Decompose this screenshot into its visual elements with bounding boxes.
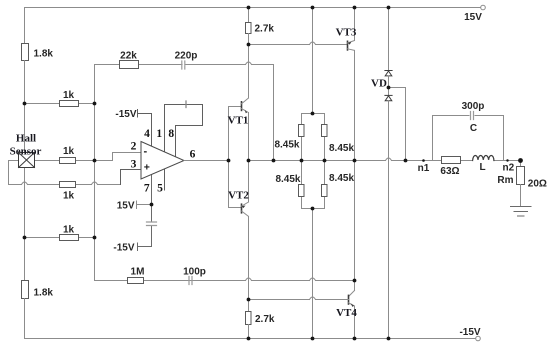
capacitor C 300p plates — [471, 112, 474, 120]
300p loop left vertical — [432, 116, 434, 161]
wire VT1/VT2 base column — [229, 107, 242, 208]
svg-text:8.45k: 8.45k — [274, 140, 299, 151]
hop of VT3 base row over bridge column — [310, 42, 316, 45]
bridge left branch — [301, 114, 303, 209]
resistor R 1k (row A) body — [60, 158, 76, 164]
node dot rail/VT4 — [353, 337, 357, 341]
transistor Q VT4 collector diag — [349, 291, 355, 297]
wire VD column from rail — [388, 8, 390, 71]
Rm lead down — [520, 161, 522, 167]
node dot left col row1 — [23, 102, 27, 106]
-15V terminal circle — [476, 336, 481, 341]
svg-text:300p: 300p — [462, 101, 485, 112]
300p loop right vertical — [503, 116, 505, 161]
Rm to ground — [520, 185, 522, 207]
hop of VT4 base row over bridge column — [310, 297, 316, 300]
wire left column hall to row4 — [24, 168, 26, 238]
op-amp U1 pin4 supply wire — [138, 114, 152, 147]
diode VD2 bar — [385, 94, 392, 96]
diode VD2 triangle — [385, 96, 392, 101]
bridge top horizontal — [302, 113, 325, 115]
svg-text:7: 7 — [144, 183, 150, 195]
svg-text:+: + — [144, 162, 150, 174]
hop of 1M row over bridge column — [310, 278, 316, 281]
resistor R 8.45k UR body — [322, 125, 328, 137]
wire 22k/220p feedback row — [95, 65, 274, 161]
svg-text:L: L — [479, 162, 485, 173]
2.7k to VT3-base node — [248, 34, 250, 45]
svg-text:n2: n2 — [503, 163, 515, 174]
wire 1M/100p feedback row — [95, 280, 355, 282]
wire summing vertical column — [94, 65, 96, 281]
svg-text:4: 4 — [144, 128, 150, 140]
svg-text:1k: 1k — [63, 191, 75, 202]
svg-text:2.7k: 2.7k — [255, 314, 275, 325]
svg-text:1M: 1M — [131, 267, 145, 278]
VT3 collector (down) — [348, 49, 355, 161]
hall sensor box — [19, 153, 35, 168]
decoupling capacitor plates — [147, 222, 157, 226]
node dot rail/bridge bottom — [311, 337, 315, 341]
hall loop hop over summing column — [92, 182, 98, 185]
wire VT3 base row — [249, 44, 348, 46]
svg-text:8: 8 — [168, 128, 174, 140]
VT2 emitter arrow (into bar) — [242, 206, 246, 209]
resistor R 8.45k UL body — [299, 125, 305, 137]
hop of 1M row over VT2 column — [246, 278, 252, 281]
svg-text:1: 1 — [156, 128, 162, 140]
VT2 collector (down) — [242, 211, 249, 300]
svg-text:VT1: VT1 — [228, 115, 249, 127]
node dot bridge right/output — [323, 159, 327, 163]
VD column to bottom rail — [388, 101, 390, 339]
svg-text:VD: VD — [371, 78, 387, 90]
VD mid to VD2 — [388, 88, 390, 96]
svg-text:1.8k: 1.8k — [34, 288, 54, 299]
svg-text:1.8k: 1.8k — [34, 49, 54, 60]
node dot emitters/output — [247, 159, 251, 163]
transistor Q VT3 base bar — [347, 41, 349, 50]
resistor R 2.7k (top) lead from rail — [248, 8, 250, 23]
node dot left col row4 — [23, 236, 27, 240]
resistor R 1.8k (top-left) body — [22, 44, 29, 61]
node dot rail/VT3 — [353, 6, 357, 10]
VD1 to mid node — [388, 76, 390, 88]
hall sensor X diagonals — [19, 153, 35, 168]
hall loop hop over left column — [22, 182, 28, 185]
compensation capacitor tick — [185, 101, 187, 108]
hall sensor left loop wire — [9, 161, 121, 185]
wire row4 (node to summing column) — [25, 237, 95, 239]
svg-text:C: C — [470, 123, 477, 134]
resistor R 63ohm body — [442, 157, 461, 164]
VT4 emitter — [349, 303, 355, 339]
resistor R 1.8k (bottom-left) body — [22, 281, 29, 299]
svg-text:1k: 1k — [63, 146, 75, 157]
svg-text:100p: 100p — [183, 267, 206, 278]
svg-text:8.45k: 8.45k — [275, 174, 300, 185]
ground symbol — [511, 207, 532, 217]
-15V tick (bottom) — [137, 243, 139, 251]
resistor R 8.45k LR body — [322, 185, 328, 197]
2.7k bottom to rail — [248, 325, 250, 339]
transistor Q VT1 base bar — [241, 102, 243, 111]
VT1 emitter — [242, 109, 249, 161]
svg-text:2: 2 — [131, 141, 137, 153]
wire top +15V rail — [25, 7, 484, 9]
op-amp pin5 stub — [164, 170, 166, 191]
wire left column row1 to hall sensor — [24, 104, 26, 153]
svg-text:Rm: Rm — [497, 175, 513, 186]
node dot rail/VT2 2.7k — [247, 337, 251, 341]
svg-text:Sensor: Sensor — [10, 146, 42, 158]
node dot rail/VD — [387, 6, 391, 10]
node dot VD mid — [387, 86, 391, 90]
op-amp pin7 vertical + decoupling path — [138, 174, 152, 247]
svg-text:1k: 1k — [63, 90, 75, 101]
svg-text:VT4: VT4 — [336, 307, 357, 319]
node dot feedback row end / VT column — [353, 279, 357, 283]
wire VT column output to VT4 — [354, 161, 356, 291]
svg-text:63Ω: 63Ω — [440, 166, 459, 177]
15V tick — [136, 201, 138, 209]
svg-text:6: 6 — [190, 149, 196, 161]
node n1 small dot — [422, 159, 425, 162]
wire pin3 corner to op-amp — [121, 170, 142, 185]
wire left column 1.8k to row1 — [24, 61, 26, 104]
node dot 2.7k/VT3 base — [247, 43, 251, 47]
node dot 220p column/output — [272, 159, 276, 163]
node dot summing rowA — [93, 159, 97, 163]
diode VD1 bar — [385, 70, 392, 72]
svg-text:20Ω: 20Ω — [528, 179, 547, 190]
svg-text:1k: 1k — [63, 225, 75, 236]
hop of 220p row over VT1 collector — [246, 62, 252, 65]
svg-text:VT3: VT3 — [336, 27, 357, 39]
capacitor C 100p plates — [189, 277, 192, 285]
gap cover for 220p — [183, 63, 185, 65]
resistor R 1k (row1) body — [60, 101, 79, 107]
transistor Q VT2 base bar — [241, 204, 243, 213]
15V wire to pin7 — [137, 204, 152, 206]
wire row1 (node to summing column) — [25, 103, 95, 105]
node dot VT column/output — [353, 159, 357, 163]
node dot rail/2.7k — [247, 6, 251, 10]
resistor R 2.7k (bottom) lead — [248, 300, 250, 312]
svg-text:VT2: VT2 — [228, 190, 249, 202]
VT3 emitter (up) — [348, 8, 355, 44]
svg-text:-15V: -15V — [459, 327, 480, 338]
svg-text:5: 5 — [157, 183, 163, 195]
svg-text:3: 3 — [131, 159, 137, 171]
node dot bridge left/output — [300, 159, 304, 163]
capacitor C 220p plates — [182, 61, 185, 69]
resistor R 2.7k (bottom) body — [246, 312, 252, 325]
node dot VT2 collector/VT4 base — [247, 298, 251, 302]
wire hall right pin row A to op-amp pin2 — [35, 153, 142, 161]
resistor Rm body — [517, 167, 525, 185]
resistor R 8.45k LL body — [299, 185, 305, 197]
svg-text:2.7k: 2.7k — [255, 24, 275, 35]
svg-text:220p: 220p — [175, 51, 198, 62]
node dot bridge bottom — [311, 207, 315, 211]
node dot base column/output — [227, 159, 231, 163]
inductor L humps — [473, 156, 494, 161]
VT2 emitter (up) — [242, 161, 249, 207]
15V terminal circle — [481, 5, 486, 10]
VT4 base bar — [348, 295, 350, 304]
node dot rail/VD bottom — [387, 337, 391, 341]
wire bottom -15V rail — [25, 338, 479, 340]
VT4 emitter arrow — [351, 303, 354, 307]
resistor R 1k (row4) body — [60, 235, 79, 241]
node dot output end (Rm tap) — [518, 158, 523, 163]
node dot VD tap/output — [404, 159, 408, 163]
bridge bottom horizontal — [302, 208, 325, 210]
output line hop over VD column — [386, 158, 392, 161]
svg-text:22k: 22k — [120, 51, 137, 62]
wire VD mid tap — [389, 88, 406, 161]
svg-text:n1: n1 — [418, 163, 430, 174]
resistor R 2.7k (top) body — [246, 23, 252, 34]
resistor R 22k body — [120, 61, 139, 69]
wire VT4 base row from VT2 collector node — [249, 299, 349, 301]
wire bridge top column — [312, 8, 314, 114]
node dot bridge top — [311, 112, 315, 116]
node dot rail/bridge — [311, 6, 315, 10]
svg-text:15V: 15V — [464, 12, 482, 23]
300p loop top with cap gap — [433, 115, 504, 117]
svg-text:Hall: Hall — [16, 133, 36, 145]
resistor R 1k (row B) body — [60, 182, 76, 188]
resistor R 1M body — [128, 278, 144, 284]
diode VD1 triangle — [385, 71, 392, 76]
svg-text:8.45k: 8.45k — [329, 143, 354, 154]
VT3 emitter arrow (into bar) — [348, 42, 352, 45]
wire left column top segment — [24, 8, 26, 44]
svg-text:-: - — [144, 146, 148, 158]
svg-text:15V: 15V — [117, 201, 135, 212]
svg-text:8.45k: 8.45k — [329, 173, 354, 184]
op-amp pin1 vertical — [164, 105, 166, 153]
VT1 collector — [242, 45, 249, 104]
pin1-pin8 compensation loop — [165, 105, 203, 126]
svg-text:-15V: -15V — [113, 243, 134, 254]
wire left column row4 to 1.8k bottom — [24, 238, 26, 281]
op-amp pin8 vertical — [175, 126, 177, 157]
op-amp U1 triangle — [141, 142, 184, 180]
wire output line pin6 to load — [184, 160, 521, 162]
-15V tick (pin4) — [137, 110, 139, 118]
node dot summing row4 — [93, 236, 97, 240]
node dot 15V/pin7 — [150, 203, 154, 207]
node n2 small dot — [506, 159, 508, 161]
node dot summing row1 — [93, 102, 97, 106]
inductor gap cover — [473, 160, 493, 161]
bridge right branch — [324, 114, 326, 209]
svg-text:-15V: -15V — [115, 109, 136, 120]
wire left column bottom to rail — [24, 299, 26, 339]
VT1 emitter arrow — [245, 110, 248, 114]
wire bridge bottom column — [312, 209, 314, 339]
